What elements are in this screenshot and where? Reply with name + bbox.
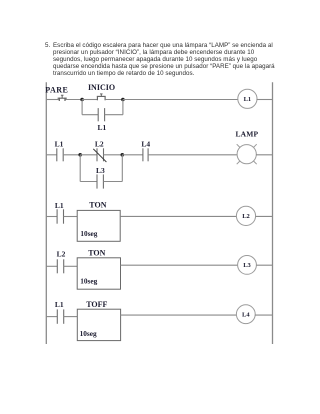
contact L2 (NC) — [93, 148, 106, 162]
svg-text:L1: L1 — [244, 96, 252, 103]
svg-text:TOFF: TOFF — [86, 300, 107, 309]
contact L3 (NO) — [97, 174, 103, 188]
right power rail — [272, 82, 274, 344]
svg-text:10seg: 10seg — [80, 229, 97, 238]
svg-text:L3: L3 — [243, 262, 251, 269]
wire rung3: coil L2 to right rail — [256, 215, 273, 217]
node D junction — [121, 153, 125, 157]
contact L1 (NO) — [57, 148, 63, 161]
wire rung5: timer to coil L4 — [121, 314, 237, 316]
wire rung3: timer to coil L2 — [120, 215, 236, 217]
wire rung1: PARE to node A — [65, 99, 82, 101]
coil L3 — [238, 256, 257, 275]
wire rung2: left rail to contact L1 — [46, 154, 57, 156]
wire rung1: node B to coil L1 — [123, 99, 238, 101]
svg-text:TON: TON — [89, 201, 106, 210]
wire rung1: node A to INICIO — [82, 99, 97, 101]
branch wire: up to node D — [121, 155, 123, 182]
pushbutton INICIO (normally-open) — [97, 94, 106, 100]
coil L1 — [238, 89, 257, 108]
node A junction — [80, 98, 84, 102]
branch wire: node C down — [79, 155, 81, 182]
branch wire: up to node B — [122, 100, 124, 115]
wire rung3: L1 to timer — [64, 216, 78, 218]
contact L4 (NO) — [143, 148, 148, 161]
wire rung2: L2 to node D — [104, 154, 123, 156]
contact L1 (seal-in, NO) — [98, 108, 104, 121]
wire rung2: lamp to right rail — [256, 154, 273, 156]
pushbutton PARE (normally-closed) — [58, 95, 67, 101]
problem statement number — [45, 42, 50, 49]
wire rung2: L4 to lamp — [148, 154, 237, 156]
problem statement paragraph — [53, 42, 293, 78]
branch wire: node A down — [81, 100, 83, 115]
contact L1 (rung5, NO) — [57, 309, 63, 323]
wire rung3: left rail to contact L1 — [46, 216, 57, 218]
wire rung2: L1 to node C — [63, 154, 80, 156]
wire rung4: left rail to contact L2 — [46, 265, 57, 267]
left power rail — [45, 82, 47, 344]
contact L1 (rung3, NO) — [57, 209, 63, 223]
svg-text:L4: L4 — [141, 140, 150, 149]
svg-text:L1: L1 — [55, 140, 64, 149]
node C junction — [78, 153, 82, 157]
svg-text:L3: L3 — [96, 166, 105, 175]
branch wire: right horizontal (L3) — [103, 181, 122, 183]
coil L2 — [236, 206, 255, 225]
wire rung4: timer to coil L3 — [121, 264, 238, 266]
lamp LAMP (pilot light) — [237, 144, 257, 164]
coil L4 — [236, 305, 255, 324]
svg-text:L1: L1 — [98, 123, 107, 132]
wire rung1: left rail to PARE — [46, 99, 59, 101]
node B junction — [121, 98, 125, 102]
svg-text:LAMP: LAMP — [235, 130, 258, 139]
timer TON T1 box — [77, 210, 120, 241]
svg-text:L2: L2 — [242, 213, 250, 220]
branch wire: right horizontal — [105, 114, 123, 116]
timer TOFF T3 box — [77, 309, 120, 340]
svg-text:INICIO: INICIO — [88, 83, 115, 92]
svg-text:L4: L4 — [242, 312, 250, 319]
wire rung4: coil L3 to right rail — [256, 264, 272, 266]
svg-text:TON: TON — [88, 249, 105, 258]
branch wire: left horizontal (L3) — [80, 181, 97, 183]
svg-text:L1: L1 — [55, 201, 64, 210]
wire rung1: INICIO to node B — [105, 99, 123, 101]
wire rung2: node D to contact L4 — [122, 154, 143, 156]
svg-text:L1: L1 — [55, 300, 64, 309]
svg-text:PARE: PARE — [45, 86, 68, 95]
svg-text:10seg: 10seg — [80, 329, 97, 338]
svg-text:L2: L2 — [95, 140, 104, 149]
wire rung1: coil L1 to right rail — [257, 99, 273, 101]
branch wire: left horizontal — [82, 114, 98, 116]
wire rung5: L1 to timer — [64, 316, 78, 318]
wire rung4: L2 to timer — [64, 265, 77, 267]
svg-text:10seg: 10seg — [80, 277, 97, 286]
svg-text:L2: L2 — [57, 249, 66, 258]
timer TON T2 box — [77, 258, 120, 289]
contact L2 (rung4, NO) — [57, 259, 63, 273]
wire rung5: left rail to contact L1 — [46, 316, 57, 318]
wire rung2: node C to contact L2 — [80, 154, 97, 156]
wire rung5: coil L4 to right rail — [255, 314, 272, 316]
